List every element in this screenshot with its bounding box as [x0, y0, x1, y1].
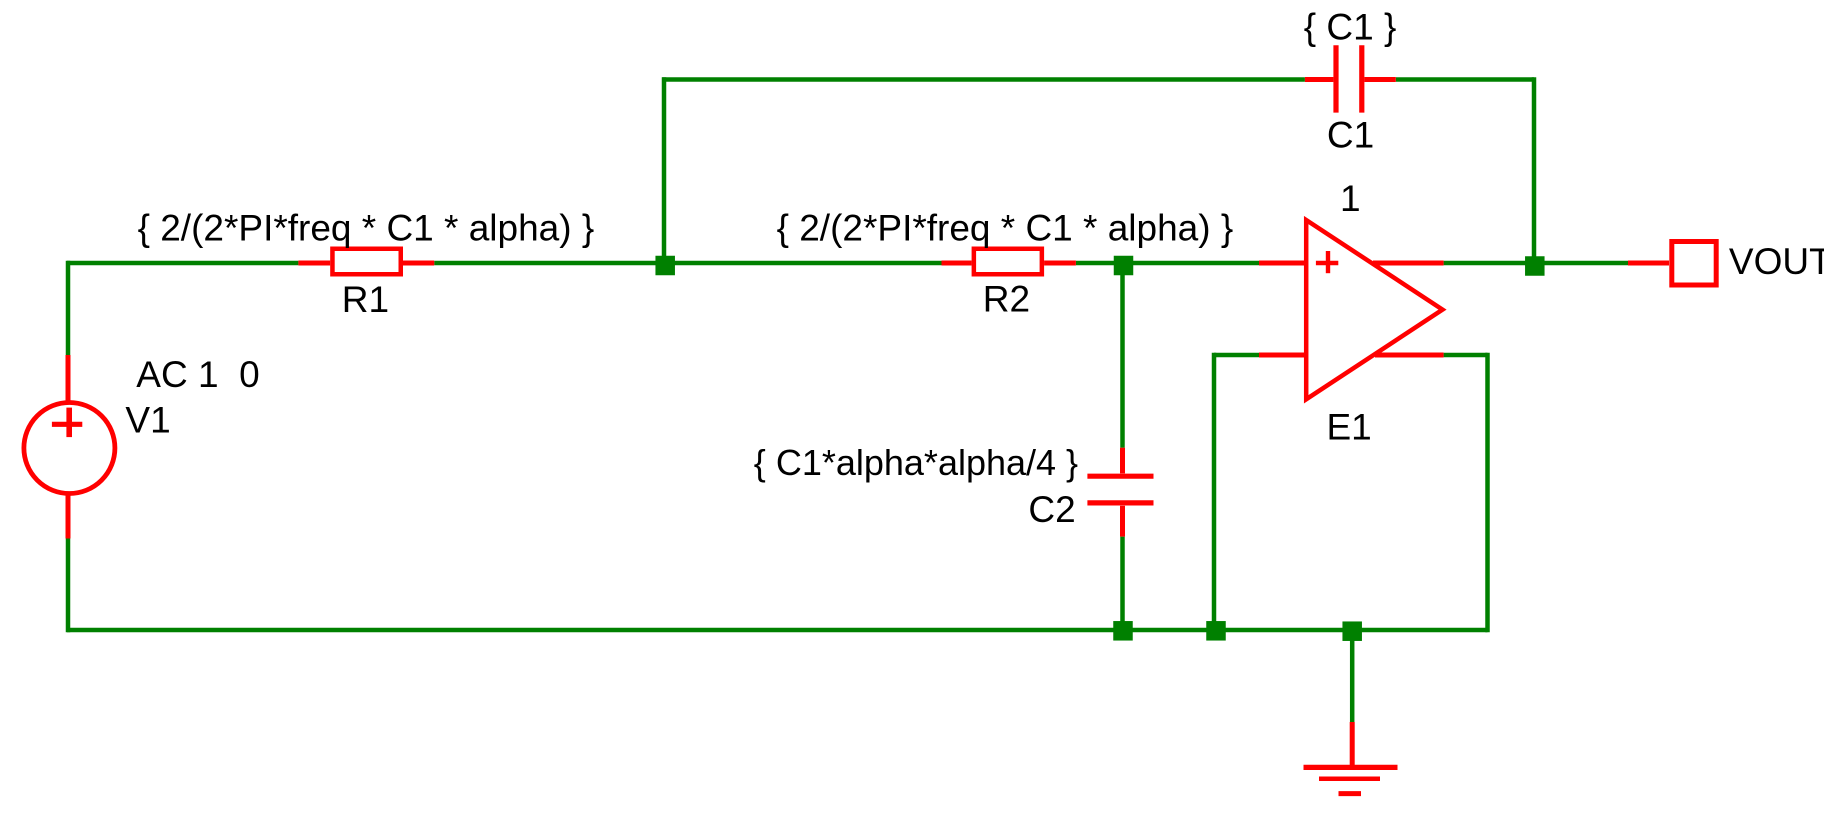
wire: bottom ground net horizontal y=630 — [67, 628, 1488, 633]
svg-text:R1: R1 — [342, 279, 389, 320]
node junction B (R2/C2) — [1114, 256, 1134, 276]
node junction E1 inverting bottom — [1206, 621, 1226, 641]
ground — [1304, 722, 1398, 794]
svg-text:{ 2/(2*PI*freq * C1 * alpha) }: { 2/(2*PI*freq * C1 * alpha) } — [777, 208, 1234, 249]
svg-text:{ C1*alpha*alpha/4 }: { C1*alpha*alpha/4 } — [754, 442, 1078, 483]
svg-text:1: 1 — [1340, 178, 1361, 219]
wire: top net horizontal right of C1 — [1396, 77, 1534, 82]
resistor R1 — [298, 249, 434, 275]
wire: R1 to junction A — [434, 261, 664, 266]
wire: E1 output reference horizontal y=355 — [1444, 353, 1488, 358]
resistor R2 — [942, 249, 1076, 275]
wire: E1 inverting input horizontal y=355 — [1214, 353, 1259, 358]
svg-text:{ C1 }: { C1 } — [1304, 6, 1397, 47]
VOUT port — [1628, 242, 1716, 286]
svg-text:VOUT: VOUT — [1729, 241, 1824, 282]
wire: C2 bottom to ground net — [1120, 537, 1125, 630]
dependent source E1 (VCVS) — [1259, 220, 1444, 399]
wire: node B down to C2 — [1120, 263, 1125, 448]
svg-text:C1: C1 — [1327, 114, 1374, 155]
svg-text:R2: R2 — [983, 279, 1030, 320]
wire: junction A to R2 — [665, 261, 942, 266]
wire: V1 bottom vertical green — [66, 539, 71, 633]
wire: top net vertical down to output junction — [1532, 77, 1537, 263]
node junction ground — [1342, 621, 1362, 641]
wire: junction A up to top net — [662, 77, 667, 263]
wire: E1 output to VOUT — [1444, 261, 1628, 266]
node junction A — [655, 256, 675, 276]
wire: E1 output reference vertical down — [1485, 353, 1490, 632]
node junction output — [1525, 256, 1545, 276]
wire: main horizontal net y=263 from V1 to R1 — [67, 261, 298, 266]
voltage source V1 — [24, 355, 115, 539]
wire: V1 vertical green upper — [66, 261, 71, 355]
wire: R2 to node B — [1076, 261, 1259, 266]
capacitor C1 — [1305, 45, 1396, 112]
svg-text:E1: E1 — [1327, 407, 1372, 448]
wire: ground stub vertical green — [1350, 630, 1355, 722]
wire: E1 inverting input vertical down — [1212, 353, 1217, 630]
capacitor C2 — [1087, 448, 1153, 537]
svg-text:C2: C2 — [1028, 489, 1075, 530]
svg-text:{ 2/(2*PI*freq * C1 * alpha) }: { 2/(2*PI*freq * C1 * alpha) } — [138, 208, 595, 249]
svg-text:V1: V1 — [125, 400, 170, 441]
wire: top net horizontal left of C1 — [662, 77, 1305, 82]
svg-text:AC 1 0: AC 1 0 — [136, 354, 259, 395]
node junction C2 bottom — [1113, 621, 1133, 641]
